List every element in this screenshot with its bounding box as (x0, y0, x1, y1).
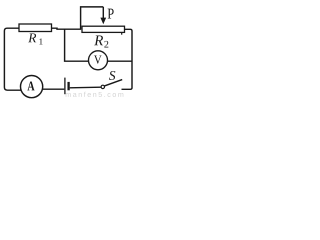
wire: riser up from junction to wiper top wire (81, 7, 104, 29)
wire: junction down to voltmeter left terminal (65, 29, 89, 61)
switch S pivot (101, 85, 104, 88)
battery cell: long plate (64, 78, 66, 95)
watermark manfen5.com (66, 92, 124, 97)
resistor R1 (19, 24, 52, 32)
wire: R2 right terminal, right vertical, to bottom-right corner (122, 29, 133, 89)
label R1 (28, 33, 42, 44)
switch S lever (105, 80, 123, 86)
wire: left vertical with top-left corner to R1 and bottom-left corner (4, 28, 21, 90)
wire: battery to switch pivot (70, 86, 101, 89)
battery cell: short thick plate (67, 82, 69, 90)
wire: voltmeter right terminal to right vertical (107, 60, 132, 62)
label R2 (94, 35, 108, 47)
label P (108, 9, 114, 19)
resistor R2 (82, 26, 125, 32)
label S (109, 71, 115, 80)
voltmeter V (89, 51, 108, 70)
ammeter A (21, 76, 43, 98)
potentiometer wiper arrow (102, 7, 104, 19)
artifact tick below R2 box (121, 32, 123, 34)
wire: R1 right terminal to riser junction (52, 28, 82, 29)
wire: bottom segment from ammeter to battery (42, 88, 64, 90)
